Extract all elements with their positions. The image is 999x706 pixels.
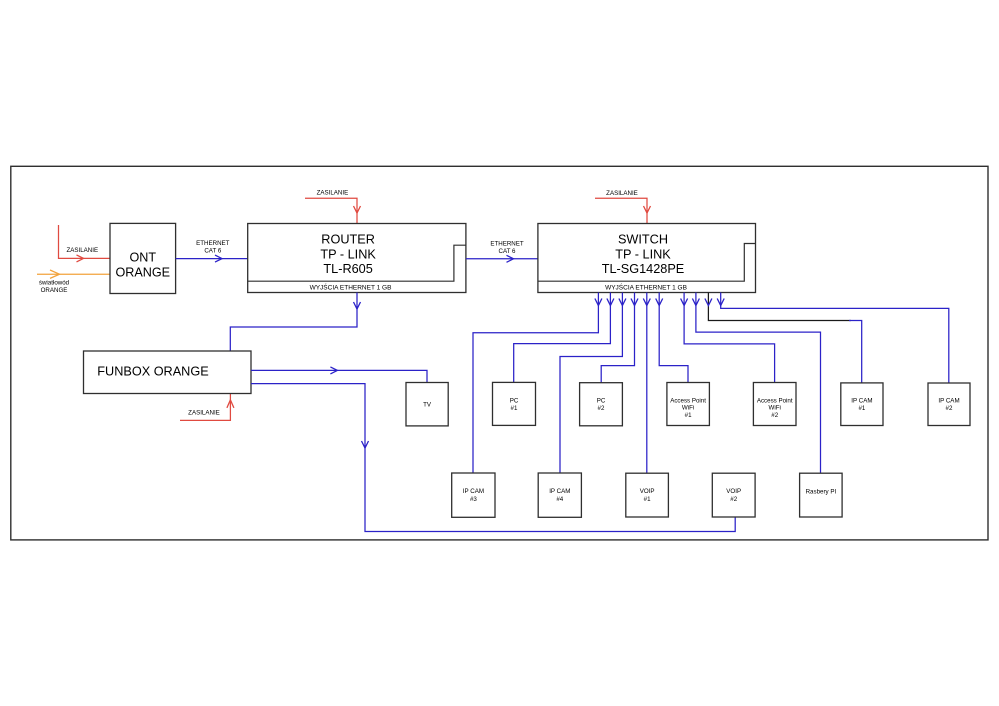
wire switch port 6 to Access Point WiFi #1: [659, 293, 688, 383]
svg-text:ZASILANIE: ZASILANIE: [317, 190, 349, 197]
svg-text:#1: #1: [858, 405, 865, 412]
svg-text:ZASILANIE: ZASILANIE: [188, 410, 220, 417]
wire ZASILANIE power into SWITCH: [595, 198, 647, 223]
wire swiatlowod ORANGE fiber into ONT: [37, 273, 110, 275]
svg-text:WYJŚCIA ETHERNET 1 GB: WYJŚCIA ETHERNET 1 GB: [310, 282, 392, 291]
svg-text:IP CAM: IP CAM: [463, 488, 484, 495]
svg-text:ETHERNET: ETHERNET: [196, 240, 230, 247]
box SWITCH TP-LINK TL-SG1428PE: [538, 224, 756, 293]
wire switch port 4 to PC #2: [601, 293, 634, 383]
svg-text:IP CAM: IP CAM: [851, 397, 872, 404]
svg-text:WYJŚCIA ETHERNET 1 GB: WYJŚCIA ETHERNET 1 GB: [605, 282, 687, 291]
svg-text:#1: #1: [644, 496, 651, 503]
svg-text:TP - LINK: TP - LINK: [320, 247, 376, 261]
box VOIP #1: [626, 473, 669, 517]
box PC #2: [580, 383, 623, 426]
svg-text:TL-SG1428PE: TL-SG1428PE: [602, 262, 685, 276]
box IP CAM #3: [452, 473, 495, 517]
box IP CAM #2: [928, 383, 970, 426]
svg-text:TV: TV: [423, 402, 432, 409]
svg-text:#3: #3: [470, 496, 477, 503]
svg-text:Access Point: Access Point: [670, 398, 706, 405]
svg-text:ONT: ONT: [130, 250, 157, 264]
svg-text:#2: #2: [946, 405, 953, 412]
box IP CAM #4: [538, 473, 581, 517]
svg-text:WiFi: WiFi: [769, 405, 781, 412]
box Access Point WiFi #2: [753, 383, 796, 426]
box VOIP #2: [712, 473, 755, 517]
svg-text:#2: #2: [730, 496, 737, 503]
svg-text:ROUTER: ROUTER: [321, 232, 375, 246]
svg-text:ZASILANIE: ZASILANIE: [606, 190, 638, 197]
box ROUTER TP-LINK TL-R605: [248, 224, 466, 293]
box FUNBOX ORANGE: [84, 351, 252, 394]
svg-text:SWITCH: SWITCH: [618, 232, 668, 246]
wire switch port 7 to Access Point WiFi #2: [684, 293, 775, 383]
svg-text:Rasbery PI: Rasbery PI: [806, 488, 837, 495]
box PC #1: [493, 382, 536, 425]
svg-text:WiFi: WiFi: [682, 405, 694, 412]
svg-text:TP - LINK: TP - LINK: [615, 247, 671, 261]
wire ZASILANIE power into ONT: [59, 225, 111, 258]
svg-text:#1: #1: [685, 412, 692, 419]
wire switch port 9 to IP CAM #1 (blue segment): [849, 321, 862, 383]
box ONT ORANGE: [110, 223, 176, 293]
svg-text:FUNBOX ORANGE: FUNBOX ORANGE: [97, 364, 208, 378]
wire switch port 8 to Rasbery PI: [696, 293, 821, 474]
wire ETHERNET CAT 6 ROUTER to SWITCH: [466, 258, 538, 260]
svg-text:CAT 6: CAT 6: [204, 248, 222, 255]
svg-text:#2: #2: [598, 405, 605, 412]
wire switch port 5 to VOIP #1: [646, 293, 648, 474]
svg-text:ORANGE: ORANGE: [116, 266, 171, 280]
svg-text:VOIP: VOIP: [726, 488, 741, 495]
svg-text:światłowód: światłowód: [39, 280, 70, 287]
svg-text:Access Point: Access Point: [757, 398, 793, 405]
svg-text:PC: PC: [597, 397, 606, 404]
svg-text:#4: #4: [556, 496, 563, 503]
svg-text:PC: PC: [510, 397, 519, 404]
wire switch port 10 to IP CAM #2: [721, 293, 949, 384]
svg-text:IP CAM: IP CAM: [938, 397, 959, 404]
wire ETHERNET CAT 6 ONT to ROUTER: [176, 258, 248, 260]
wire FUNBOX to TV: [251, 370, 427, 382]
wire ZASILANIE power into ROUTER: [305, 198, 357, 223]
svg-text:CAT 6: CAT 6: [499, 248, 517, 255]
svg-text:#1: #1: [511, 405, 518, 412]
wire ROUTER to FUNBOX ORANGE: [230, 293, 357, 352]
svg-text:#2: #2: [771, 412, 778, 419]
wire switch port 9 to IP CAM #1 (black segment): [708, 293, 851, 321]
box Access Point WiFi #1: [667, 383, 710, 426]
wire switch port 2 to PC #1: [514, 293, 611, 383]
wire ZASILANIE power into FUNBOX: [180, 394, 230, 420]
svg-text:ORANGE: ORANGE: [41, 287, 68, 294]
wire switch port 3 to IP CAM #4: [560, 293, 622, 474]
box IP CAM #1: [841, 383, 883, 426]
svg-text:TL-R605: TL-R605: [323, 262, 372, 276]
svg-text:ZASILANIE: ZASILANIE: [66, 247, 98, 254]
box TV: [406, 383, 448, 426]
svg-text:ETHERNET: ETHERNET: [490, 241, 524, 248]
outer border frame: [11, 166, 988, 540]
box Rasbery PI: [800, 473, 843, 517]
wire switch port 1 to IP CAM #3: [473, 293, 598, 474]
svg-text:VOIP: VOIP: [640, 488, 655, 495]
svg-text:IP CAM: IP CAM: [549, 488, 570, 495]
wire FUNBOX to VOIP #2: [251, 384, 735, 532]
